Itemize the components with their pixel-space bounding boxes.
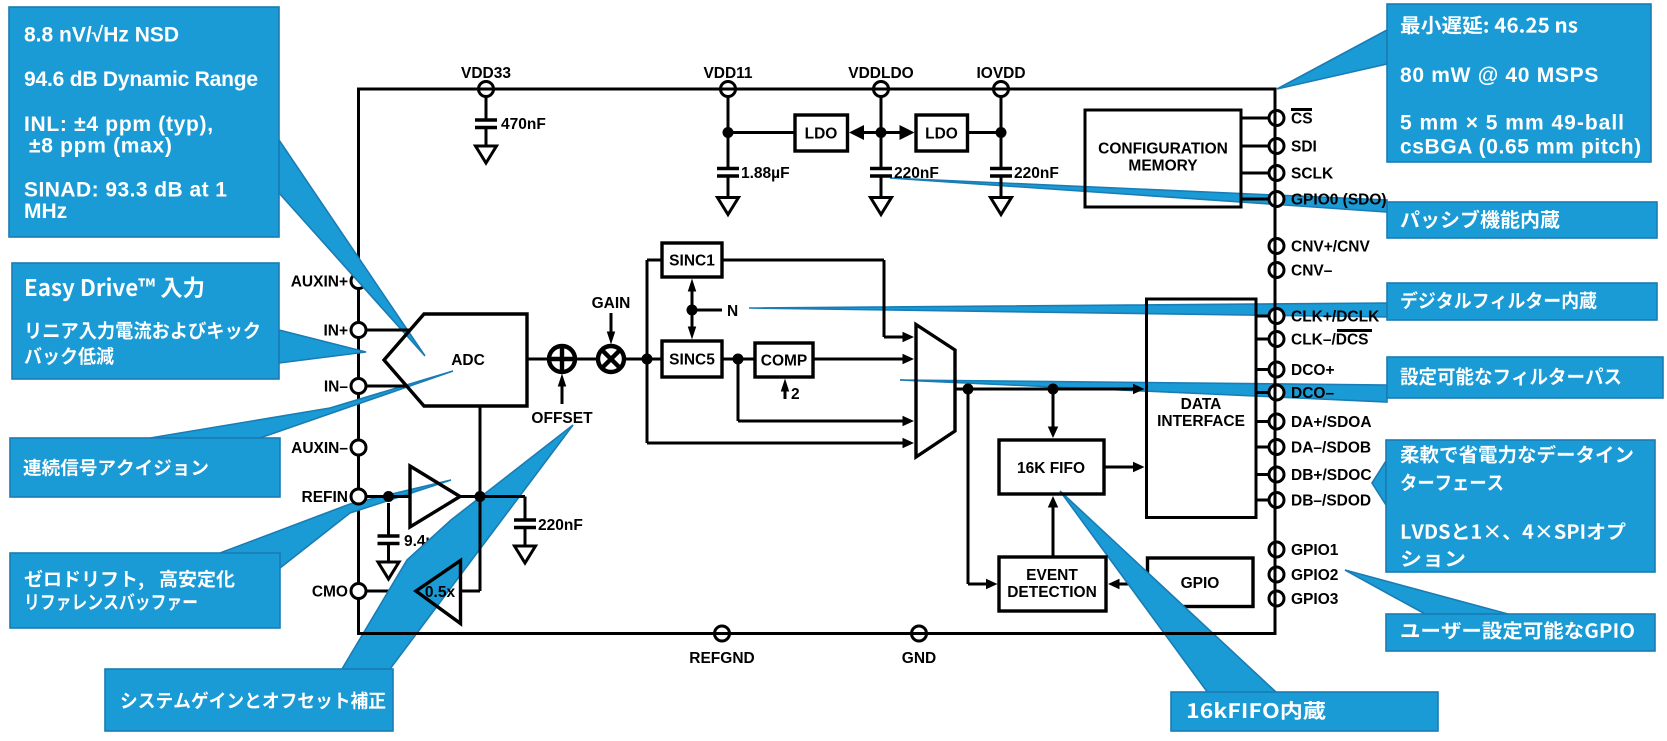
wire VDD11 down [727,97,730,169]
wire data interface to pin y500 [1256,499,1269,502]
svg-text:220nF: 220nF [538,517,583,534]
ground under C5 [378,562,399,579]
wire data interface to pin y447 [1256,446,1269,449]
svg-text:CNV+/CNV: CNV+/CNV [1291,239,1370,256]
svg-text:VDD33: VDD33 [461,65,511,82]
filter block SINC1 [662,243,722,277]
callout specs (NSD/dynamic range/INL/SINAD) with pointer to ADC [9,7,425,356]
svg-text:470nF: 470nF [501,116,546,133]
wire REFIN to buffer [366,495,410,498]
multiplier node (gain) [598,346,624,372]
block COMP compressor [755,343,813,377]
pin CLK–/DCS [1269,332,1284,347]
svg-text:0.5x: 0.5x [425,584,456,601]
svg-text:80 mW @ 40 MSPS: 80 mW @ 40 MSPS [1400,64,1599,87]
wire SINC5 out to mux [738,359,914,426]
multiplexer filter path mux [916,325,955,458]
svg-text:SINC1: SINC1 [669,253,715,270]
wire IN– to ADC [366,385,407,388]
svg-text:DETECTION: DETECTION [1007,584,1097,601]
pin GPIO3 [1269,591,1284,606]
ground under C3 [871,198,892,215]
pin IN+ [351,323,366,338]
pin GPIO0 (SDO) [1269,192,1284,207]
arrow GAIN into multiplier [607,313,616,345]
block DATA INTERFACE [1147,299,1257,518]
arrow event detection to FIFO [1048,496,1059,557]
wire vertical filter bypass bus [646,260,649,443]
wire LDO U3 to IOVDD [968,131,1002,134]
wire FIFO to data interface [1104,462,1145,473]
wire config memory to SCLK pin [1241,172,1269,175]
pin VDDLDO [874,82,889,97]
pin REFIN [351,489,366,504]
svg-text:REFGND: REFGND [689,650,754,667]
summing node (offset adder) [549,346,575,372]
svg-text:GPIO3: GPIO3 [1291,591,1339,608]
svg-text:LDO: LDO [925,126,958,143]
svg-text:IOVDD: IOVDD [976,65,1025,82]
svg-text:CLK+/DCLK: CLK+/DCLK [1291,309,1380,326]
node filter input junction [642,354,653,365]
svg-text:CMO: CMO [312,584,348,601]
label CONFIGURATION MEMORY [1098,141,1228,175]
capacitor C4 220nF on IOVDD [1000,160,1003,169]
pin VDD33 [479,82,494,97]
svg-text:DCO+: DCO+ [1291,362,1335,379]
svg-text:GPIO0 (SDO): GPIO0 (SDO) [1291,192,1387,209]
wire VDDLDO to LDO U2 arrow [849,125,881,140]
svg-text:COMP: COMP [761,353,808,370]
callout user-configurable GPIO with pointer to GPIO2 [1345,570,1655,651]
svg-text:VDDLDO: VDDLDO [848,65,913,82]
data interface fill [1147,299,1257,518]
regulator U3 LDO [916,115,968,151]
callout passive functions built-in with pointer to 220nF cap [890,178,1657,238]
pin GPIO2 [1269,567,1284,582]
capacitor C2 1.88uF on VDD11 [727,160,730,169]
svg-text:DA+/SDOA: DA+/SDOA [1291,414,1372,431]
node junction IOVDD [996,127,1007,138]
wire SINC5 to COMP [722,358,755,361]
capacitor C3 220nF on VDDLDO [880,160,883,169]
label EVENT DETECTION [1007,567,1097,601]
svg-text:DB+/SDOC: DB+/SDOC [1291,467,1372,484]
wire C4 to ground [1000,176,1003,198]
callout latency/power/package with pointer to chip corner [1277,4,1651,162]
wire bypass to mux [647,438,914,449]
callout continuous signal acquisition with pointer to ADC [10,371,453,497]
node buffer output junction [475,491,486,502]
callout 16k FIFO built-in with pointer to FIFO block [1060,491,1438,731]
wire 0.5x to vertical [461,590,481,593]
svg-text:CLK–/DCS: CLK–/DCS [1291,332,1369,349]
op-amp reference buffer [410,466,460,527]
node mux output junction B [1048,384,1059,395]
capacitor C6 220nF on buffer [524,497,527,521]
svg-text:INTERFACE: INTERFACE [1157,413,1245,430]
configuration memory fill [1085,110,1241,207]
pin DB+/SDOC [1269,467,1284,482]
svg-text:VDD11: VDD11 [703,65,752,82]
pin SCLK [1269,166,1284,181]
chip boundary bottom edge [359,632,1276,635]
arrow OFFSET into summer [558,374,567,405]
wire IOVDD down [1000,97,1003,169]
svg-text:220nF: 220nF [894,165,939,182]
mux body fill [916,325,955,458]
wire C6 to ground [524,528,527,547]
pin CNV+/CNV [1269,239,1284,254]
svg-text:SCLK: SCLK [1291,166,1334,183]
wire config memory to SDI pin [1241,145,1269,148]
svg-text:SDI: SDI [1291,139,1317,156]
svg-text:8.8 nV/√Hz NSD: 8.8 nV/√Hz NSD [24,24,179,47]
svg-text:DCO–: DCO– [1291,385,1334,402]
callout digital filter built-in with pointer to N [749,283,1657,320]
svg-text:IN–: IN– [324,379,349,396]
svg-text:CONFIGURATION: CONFIGURATION [1098,141,1228,158]
pin AUXIN– [351,440,366,455]
block 16K FIFO [999,440,1104,494]
node mux output junction A [963,384,974,395]
pin GND [912,626,927,641]
pin DA+/SDOA [1269,414,1284,429]
wire data interface to pin y474.5 [1256,473,1269,476]
pin CLK+/DCLK [1269,309,1284,324]
reference buffer body fill [410,466,460,527]
chip boundary top edge [359,88,1276,91]
node junction VDD11/LDO [723,127,734,138]
svg-text:csBGA (0.65 mm pitch): csBGA (0.65 mm pitch) [1400,135,1642,158]
pin VDD11 [721,82,736,97]
svg-text:GAIN: GAIN [592,295,631,312]
pin CMO [351,584,366,599]
svg-text:AUXIN–: AUXIN– [291,440,348,457]
svg-text:N: N [727,303,738,320]
wire VDD33 cap to ground [485,128,488,147]
wire ADC output to summer [527,358,549,361]
pin AUXIN+ (under wedge) [351,274,366,289]
svg-text:MHz: MHz [24,200,67,223]
wire C2 to ground [727,176,730,198]
svg-text:CNV–: CNV– [1291,263,1333,280]
ground under C2 [718,198,739,215]
amplifier 0.5x body fill [416,561,461,624]
wire junction B to FIFO [1048,389,1059,438]
chip boundary right edge [1274,89,1277,634]
svg-text:16K FIFO: 16K FIFO [1017,460,1085,477]
pin REFGND [715,626,730,641]
arrow GPIO to event detection [1108,579,1148,590]
arrow decimation N to SINC1 [688,279,697,335]
block EVENT DETECTION [999,557,1106,611]
svg-text:GPIO: GPIO [1181,575,1220,592]
svg-text:GPIO2: GPIO2 [1291,567,1338,584]
capacitor C1 470nF on VDD33 [485,97,488,121]
wire data interface to pin y369.5 [1256,368,1269,371]
pin IOVDD [994,82,1009,97]
svg-text:LDO: LDO [805,126,838,143]
ADC converter U1 [384,314,527,406]
wire C5 to ground [387,544,390,563]
pin DA–/SDOB [1269,440,1284,455]
block GPIO [1148,558,1254,607]
callout configurable filter path with pointer to mux output [900,357,1663,402]
filter block SINC5 [662,341,722,377]
arrow downsample 2 into COMP [781,379,790,400]
wire summer to multiplier [575,358,598,361]
wire mux output to data interface [955,384,1145,395]
amplifier 0.5x [416,561,461,624]
pin label CLK–/DCS with overline on DCS [1291,331,1372,349]
wire config memory to GPIO0 pin [1241,198,1269,201]
node N junction [687,305,698,316]
pin DCO– [1269,385,1284,400]
wire CMO to 0.5x [366,590,416,593]
svg-text:5 mm × 5 mm 49-ball: 5 mm × 5 mm 49-ball [1400,112,1625,135]
wire to SINC1 input [647,259,662,262]
wire VDDLDO to LDO U3 arrow [881,125,915,140]
svg-text:±8 ppm (max): ±8 ppm (max) [29,135,173,158]
ADC body fill [384,314,527,406]
svg-text:1.88µF: 1.88µF [741,165,790,182]
wire multiplier to filter node [624,358,662,361]
wire VDD11 to LDO U2 [728,131,795,134]
wire config memory to CS pin [1241,117,1269,120]
pin CS [1269,111,1284,126]
capacitor C5 9.4µF on REFIN [387,503,390,536]
arrow decimation N to SINC5 [688,327,697,340]
wire C3 to ground [880,176,883,198]
block CONFIGURATION MEMORY [1085,110,1241,207]
ground under C1 [476,146,497,163]
wire data interface to pin y392.5 [1256,391,1269,394]
svg-text:DA–/SDOB: DA–/SDOB [1291,440,1371,457]
pin DCO+ [1269,362,1284,377]
ground under C4 [991,198,1012,215]
pin SDI [1269,139,1284,154]
svg-text:REFIN: REFIN [302,489,349,506]
svg-text:GND: GND [902,650,936,667]
wire N junction to label [692,309,722,312]
wire buffer output [460,495,525,498]
chip boundary (AD4080 block diagram border) [359,89,1276,634]
node REFIN junction [383,491,394,502]
callout system gain and offset correction with pointer to OFFSET [105,425,573,731]
svg-text:OFFSET: OFFSET [531,410,593,427]
callout flexible low-power data interface [1372,440,1655,572]
svg-text:DATA: DATA [1181,396,1222,413]
wire IN+ to ADC [366,329,410,332]
wire COMP output to mux [813,354,914,365]
wire data interface to pin y316 [1256,315,1269,318]
pin IN– [351,379,366,394]
pin DB–/SDOD [1269,493,1284,508]
label DATA INTERFACE [1157,396,1245,430]
svg-text:DB–/SDOD: DB–/SDOD [1291,493,1371,510]
svg-text:EVENT: EVENT [1026,567,1078,584]
wire data interface to pin y339 [1256,338,1269,341]
svg-text:AUXIN+: AUXIN+ [291,274,348,291]
svg-text:MEMORY: MEMORY [1128,158,1198,175]
svg-text:CS: CS [1291,111,1313,128]
wire SINC1 output [722,260,914,342]
callout Easy Drive inputs with pointer to IN+ [12,263,366,379]
pin CNV– [1269,263,1284,278]
svg-text:220nF: 220nF [1014,165,1059,182]
svg-text:INL: ±4 ppm (typ),: INL: ±4 ppm (typ), [24,113,214,136]
pin label CS with overline [1291,110,1313,128]
svg-text:ADC: ADC [451,352,485,369]
node SINC5 output junction [733,354,744,365]
svg-text:SINC5: SINC5 [669,352,715,369]
svg-text:GPIO1: GPIO1 [1291,542,1339,559]
wire junction A to event detection [968,389,998,589]
svg-text:94.6 dB Dynamic Range: 94.6 dB Dynamic Range [24,68,258,91]
wire VDDLDO down [880,97,883,169]
wire ADC to buffer junction vertical [479,406,482,591]
callout zero-drift reference buffer with pointer to buffer [10,480,451,628]
ground under C6 [515,546,536,563]
wire data interface to pin y421.5 [1256,420,1269,423]
regulator U2 LDO [795,115,848,151]
svg-text:IN+: IN+ [323,323,348,340]
pin GPIO1 [1269,542,1284,557]
node junction VDDLDO [876,127,887,138]
svg-text:SINAD: 93.3 dB at 1: SINAD: 93.3 dB at 1 [24,179,227,202]
svg-text:2: 2 [791,386,800,403]
